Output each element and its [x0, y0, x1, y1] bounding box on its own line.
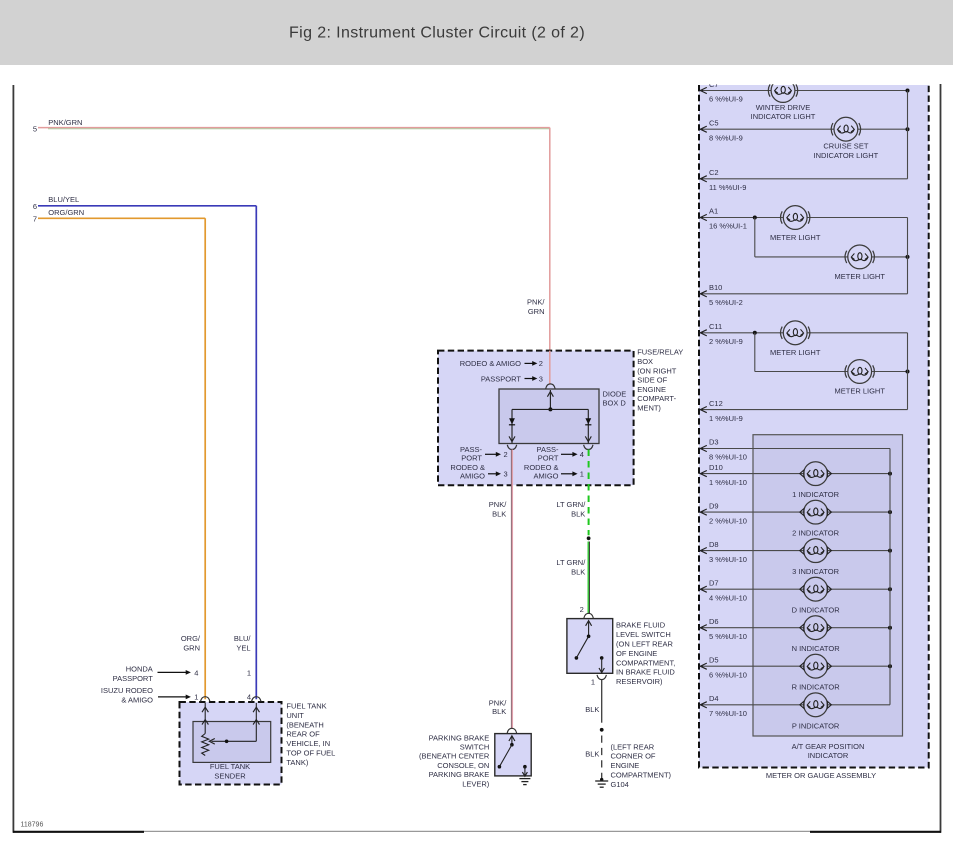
svg-text:BRAKE FLUID: BRAKE FLUID	[616, 621, 666, 630]
svg-text:4: 4	[247, 693, 251, 702]
svg-text:INDICATOR LIGHT: INDICATOR LIGHT	[814, 151, 879, 160]
svg-text:METER LIGHT: METER LIGHT	[834, 387, 885, 396]
svg-text:PASSPORT: PASSPORT	[113, 674, 154, 683]
svg-text:LT GRN/: LT GRN/	[556, 558, 586, 567]
svg-text:LEVEL SWITCH: LEVEL SWITCH	[616, 630, 671, 639]
svg-text:G104: G104	[611, 780, 629, 789]
svg-text:(ON RIGHT: (ON RIGHT	[637, 366, 677, 375]
svg-text:(LEFT REAR: (LEFT REAR	[611, 742, 655, 751]
svg-text:1 INDICATOR: 1 INDICATOR	[792, 490, 839, 499]
svg-text:PASSPORT: PASSPORT	[481, 374, 522, 383]
svg-text:ENGINE: ENGINE	[611, 761, 640, 770]
svg-text:METER OR GAUGE ASSEMBLY: METER OR GAUGE ASSEMBLY	[766, 771, 876, 780]
svg-text:C12: C12	[709, 399, 723, 408]
svg-text:D10: D10	[709, 463, 723, 472]
svg-text:1: 1	[194, 693, 198, 702]
svg-text:5 %%UI-10: 5 %%UI-10	[709, 632, 747, 641]
svg-text:ORG/: ORG/	[181, 634, 201, 643]
svg-text:BLK: BLK	[585, 749, 599, 758]
svg-text:PARKING BRAKE: PARKING BRAKE	[429, 770, 490, 779]
svg-text:& AMIGO: & AMIGO	[121, 695, 153, 704]
svg-text:OF ENGINE: OF ENGINE	[616, 649, 657, 658]
svg-text:3: 3	[539, 374, 543, 383]
svg-text:CORNER OF: CORNER OF	[611, 752, 656, 761]
svg-text:D5: D5	[709, 655, 719, 664]
svg-text:D4: D4	[709, 694, 719, 703]
svg-text:PORT: PORT	[461, 453, 482, 462]
svg-text:3 %%UI-10: 3 %%UI-10	[709, 555, 747, 564]
svg-text:2: 2	[580, 605, 584, 614]
svg-text:VEHICLE, IN: VEHICLE, IN	[286, 739, 330, 748]
svg-text:C5: C5	[709, 118, 719, 127]
svg-text:HONDA: HONDA	[126, 664, 153, 673]
svg-text:IN BRAKE FLUID: IN BRAKE FLUID	[616, 668, 675, 677]
svg-text:FUEL TANK: FUEL TANK	[286, 702, 326, 711]
svg-text:LEVER): LEVER)	[462, 779, 490, 788]
svg-text:8 %%UI-9: 8 %%UI-9	[709, 133, 743, 142]
svg-text:REAR OF: REAR OF	[286, 730, 320, 739]
svg-text:COMPARTMENT): COMPARTMENT)	[611, 771, 672, 780]
svg-text:7: 7	[33, 215, 37, 224]
svg-text:D3: D3	[709, 438, 719, 447]
svg-text:1: 1	[247, 668, 251, 677]
svg-text:B10: B10	[709, 283, 722, 292]
svg-text:AMIGO: AMIGO	[460, 472, 485, 481]
svg-text:BLK: BLK	[571, 567, 585, 576]
svg-text:R INDICATOR: R INDICATOR	[792, 683, 841, 692]
svg-text:BOX D: BOX D	[603, 399, 627, 408]
svg-text:PNK/: PNK/	[527, 297, 545, 306]
svg-text:GRN: GRN	[528, 307, 545, 316]
svg-text:TANK): TANK)	[286, 758, 308, 767]
svg-text:A1: A1	[709, 207, 718, 216]
svg-text:ORG/GRN: ORG/GRN	[48, 208, 84, 217]
svg-text:1: 1	[591, 678, 595, 687]
svg-text:1 %%UI-9: 1 %%UI-9	[709, 414, 743, 423]
svg-text:PNK/: PNK/	[489, 698, 507, 707]
svg-text:5: 5	[33, 124, 37, 133]
svg-text:RODEO & AMIGO: RODEO & AMIGO	[460, 359, 521, 368]
svg-text:2 INDICATOR: 2 INDICATOR	[792, 529, 839, 538]
svg-text:INDICATOR LIGHT: INDICATOR LIGHT	[751, 112, 816, 121]
svg-text:3 INDICATOR: 3 INDICATOR	[792, 567, 839, 576]
svg-text:A/T GEAR POSITION: A/T GEAR POSITION	[792, 742, 865, 751]
svg-text:FUSE/RELAY: FUSE/RELAY	[637, 348, 683, 357]
svg-text:TOP OF FUEL: TOP OF FUEL	[286, 749, 335, 758]
svg-text:N INDICATOR: N INDICATOR	[792, 644, 841, 653]
svg-text:P INDICATOR: P INDICATOR	[792, 721, 840, 730]
svg-text:(BENEATH: (BENEATH	[286, 720, 323, 729]
svg-text:BLK: BLK	[571, 509, 585, 518]
svg-text:D7: D7	[709, 578, 719, 587]
svg-text:METER LIGHT: METER LIGHT	[770, 233, 821, 242]
svg-text:BLK: BLK	[492, 707, 506, 716]
svg-text:DIODE: DIODE	[603, 389, 627, 398]
svg-text:BLU/YEL: BLU/YEL	[48, 195, 79, 204]
svg-text:(ON LEFT REAR: (ON LEFT REAR	[616, 640, 674, 649]
svg-text:6 %%UI-10: 6 %%UI-10	[709, 670, 747, 679]
svg-text:YEL: YEL	[236, 643, 250, 652]
svg-text:WINTER DRIVE: WINTER DRIVE	[756, 103, 811, 112]
svg-text:4 %%UI-10: 4 %%UI-10	[709, 593, 747, 602]
svg-text:METER LIGHT: METER LIGHT	[834, 272, 885, 281]
svg-text:C2: C2	[709, 168, 719, 177]
svg-text:CRUISE SET: CRUISE SET	[823, 142, 868, 151]
svg-text:3: 3	[504, 469, 508, 478]
svg-text:BLK: BLK	[492, 509, 506, 518]
svg-text:SIDE OF: SIDE OF	[637, 376, 667, 385]
svg-text:METER LIGHT: METER LIGHT	[770, 348, 821, 357]
svg-text:8 %%UI-10: 8 %%UI-10	[709, 453, 747, 462]
svg-text:2: 2	[504, 450, 508, 459]
svg-text:2 %%UI-10: 2 %%UI-10	[709, 516, 747, 525]
svg-text:Fig 2: Instrument Cluster Circ: Fig 2: Instrument Cluster Circuit (2 of …	[289, 25, 585, 42]
svg-text:AMIGO: AMIGO	[533, 472, 558, 481]
svg-text:D6: D6	[709, 617, 719, 626]
svg-text:CONSOLE, ON: CONSOLE, ON	[437, 761, 489, 770]
svg-text:6 %%UI-9: 6 %%UI-9	[709, 95, 743, 104]
svg-text:BOX: BOX	[637, 357, 653, 366]
svg-text:C7: C7	[709, 80, 719, 89]
svg-text:118796: 118796	[21, 822, 44, 829]
svg-text:2: 2	[539, 359, 543, 368]
svg-text:RESERVOIR): RESERVOIR)	[616, 677, 663, 686]
svg-text:C11: C11	[709, 322, 722, 331]
svg-text:COMPARTMENT,: COMPARTMENT,	[616, 658, 675, 667]
svg-text:BLU/: BLU/	[234, 634, 252, 643]
svg-text:LT GRN/: LT GRN/	[556, 500, 586, 509]
svg-text:PARKING BRAKE: PARKING BRAKE	[429, 733, 490, 742]
svg-text:1 %%UI-10: 1 %%UI-10	[709, 478, 747, 487]
svg-text:4: 4	[580, 450, 584, 459]
svg-text:11 %%UI-9: 11 %%UI-9	[709, 183, 746, 192]
svg-text:BLK: BLK	[585, 705, 599, 714]
svg-text:16 %%UI-1: 16 %%UI-1	[709, 222, 747, 231]
svg-text:COMPART-: COMPART-	[637, 394, 676, 403]
svg-text:GRN: GRN	[183, 643, 200, 652]
svg-text:D9: D9	[709, 501, 719, 510]
svg-text:MENT): MENT)	[637, 404, 661, 413]
svg-text:PNK/: PNK/	[489, 500, 507, 509]
svg-text:ISUZU RODEO: ISUZU RODEO	[101, 686, 153, 695]
svg-text:7 %%UI-10: 7 %%UI-10	[709, 709, 747, 718]
svg-text:D INDICATOR: D INDICATOR	[792, 606, 841, 615]
svg-text:D8: D8	[709, 540, 719, 549]
svg-text:1: 1	[580, 469, 584, 478]
svg-text:6: 6	[33, 202, 37, 211]
svg-text:ENGINE: ENGINE	[637, 385, 666, 394]
svg-text:4: 4	[194, 668, 198, 677]
svg-text:SENDER: SENDER	[214, 771, 246, 780]
svg-text:SWITCH: SWITCH	[460, 743, 490, 752]
svg-text:PORT: PORT	[538, 453, 559, 462]
svg-text:(BENEATH CENTER: (BENEATH CENTER	[419, 752, 490, 761]
svg-text:5 %%UI-2: 5 %%UI-2	[709, 298, 743, 307]
svg-text:2 %%UI-9: 2 %%UI-9	[709, 337, 743, 346]
svg-text:FUEL TANK: FUEL TANK	[210, 762, 250, 771]
svg-text:PNK/GRN: PNK/GRN	[48, 118, 82, 127]
svg-text:INDICATOR: INDICATOR	[808, 751, 849, 760]
svg-text:UNIT: UNIT	[286, 711, 304, 720]
